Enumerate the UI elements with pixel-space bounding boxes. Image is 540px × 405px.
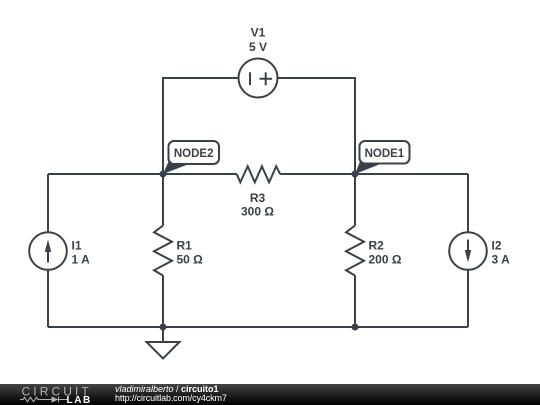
- wire left branch lower: [47, 270, 49, 327]
- ground stub: [162, 327, 164, 342]
- NODE2 flag tail: [163, 162, 189, 175]
- wire right branch upper: [467, 174, 469, 232]
- wire top-left vertical (node2 up to V1 row): [163, 78, 239, 174]
- wire top-right (V1 to node1): [278, 78, 356, 174]
- svg-text:http://circuitlab.com/cy4ckm7: http://circuitlab.com/cy4ckm7: [115, 393, 227, 403]
- current source I2: [449, 232, 487, 270]
- svg-text:R1: R1: [177, 238, 193, 252]
- NODE2 flag bubble: [169, 141, 220, 164]
- svg-text:5 V: 5 V: [249, 40, 267, 54]
- wire node row left segment: [48, 173, 237, 175]
- voltage source V1: [239, 59, 278, 98]
- svg-text:V1: V1: [251, 25, 266, 39]
- svg-text:1 A: 1 A: [72, 252, 91, 266]
- wire R2 branch upper: [354, 174, 356, 226]
- resistor R2: [346, 226, 364, 276]
- resistor R3: [237, 166, 280, 182]
- svg-text:200 Ω: 200 Ω: [369, 252, 402, 266]
- logo diode triangle: [52, 396, 59, 402]
- wire R1 branch lower: [162, 276, 164, 328]
- svg-text:3 A: 3 A: [492, 252, 511, 266]
- svg-text:NODE2: NODE2: [174, 148, 214, 160]
- wire left branch upper: [47, 174, 49, 232]
- I2 arrow shaft: [467, 240, 469, 255]
- wire R1 branch upper: [162, 174, 164, 226]
- V1 minus terminal bar: [249, 72, 251, 85]
- junction dot bottom right: [352, 324, 359, 331]
- svg-text:LAB: LAB: [67, 395, 92, 405]
- current source I1: [29, 232, 67, 270]
- svg-text:50 Ω: 50 Ω: [177, 252, 204, 266]
- resistor R1: [154, 226, 172, 276]
- I1 arrow head: [45, 240, 51, 253]
- wire bottom rail: [48, 326, 468, 328]
- V1 plus sign: [260, 72, 273, 85]
- logo resistor-diode squiggle: [20, 397, 68, 403]
- I2 arrow head: [465, 250, 471, 263]
- ground triangle: [147, 342, 180, 359]
- svg-text:R2: R2: [369, 238, 385, 252]
- wire right branch lower: [467, 270, 469, 327]
- wire R2 branch lower: [354, 276, 356, 328]
- node A junction dot (node2 row): [160, 171, 167, 178]
- svg-text:I2: I2: [492, 238, 502, 252]
- wire node row right segment: [280, 173, 468, 175]
- svg-text:I1: I1: [72, 238, 82, 252]
- svg-text:NODE1: NODE1: [365, 148, 405, 160]
- NODE1 flag bubble: [360, 141, 410, 164]
- I1 arrow shaft: [47, 248, 49, 263]
- NODE1 flag tail: [355, 162, 381, 175]
- svg-text:300 Ω: 300 Ω: [241, 205, 274, 219]
- junction dot bottom left: [160, 324, 167, 331]
- node B junction dot (node1 row): [352, 171, 359, 178]
- footer bar: [0, 384, 540, 405]
- svg-text:R3: R3: [250, 191, 266, 205]
